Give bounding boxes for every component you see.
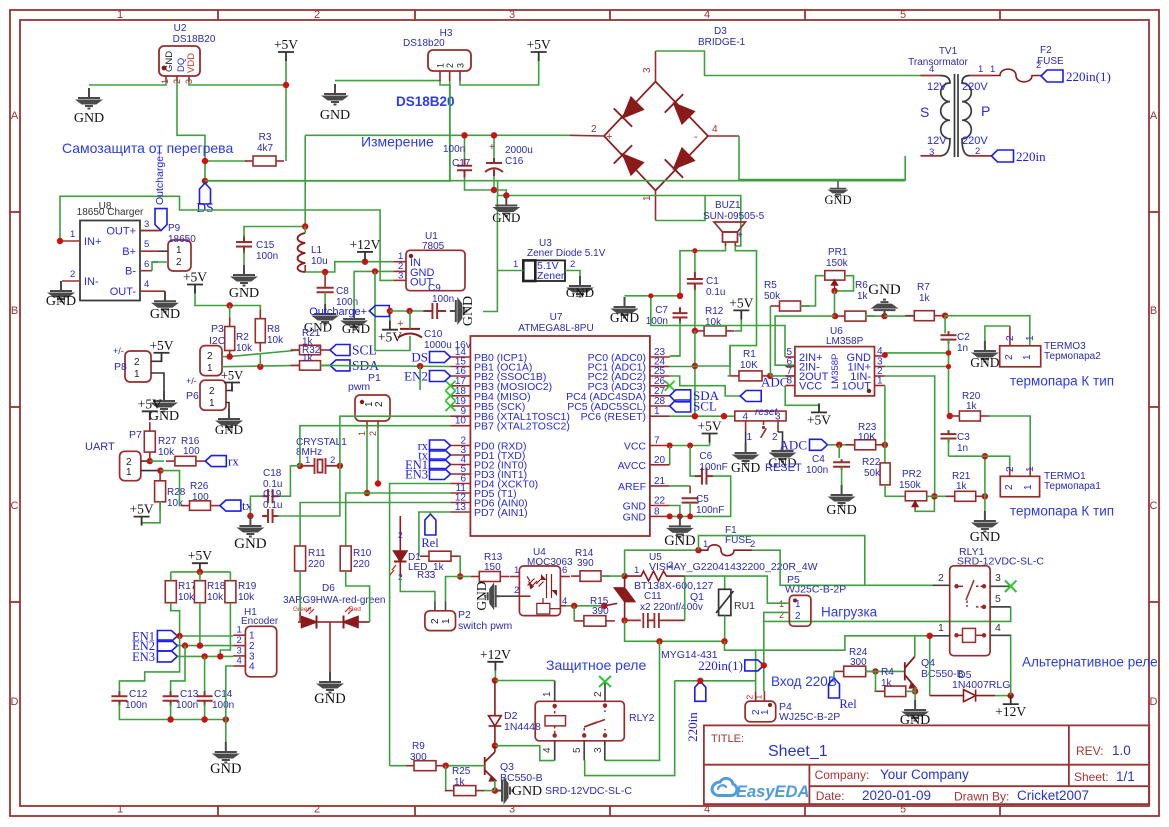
ground	[233, 265, 255, 286]
junction	[227, 353, 233, 359]
wire	[226, 666, 233, 742]
junction	[297, 463, 303, 469]
port 220in vertical	[695, 681, 706, 701]
svg-text:UART: UART	[85, 441, 115, 453]
wire	[752, 550, 932, 585]
wire	[625, 620, 725, 641]
wire	[694, 251, 696, 273]
wire	[670, 321, 680, 356]
svg-text:2: 2	[1004, 354, 1015, 360]
svg-text:TV1: TV1	[939, 46, 958, 57]
connector P7 UART	[120, 451, 141, 480]
svg-text:0.1u: 0.1u	[263, 500, 282, 511]
capacitor C1	[687, 272, 703, 291]
svg-text:3: 3	[509, 9, 515, 21]
svg-text:1: 1	[877, 376, 883, 387]
svg-text:GND: GND	[210, 761, 241, 777]
wire	[985, 326, 1010, 341]
wire	[885, 485, 905, 496]
svg-text:GND: GND	[826, 503, 856, 518]
svg-text:220: 220	[353, 559, 370, 570]
potentiometer PR1	[825, 271, 845, 281]
ground	[324, 84, 346, 105]
svg-text:2: 2	[134, 357, 140, 368]
svg-text:+5V: +5V	[698, 419, 722, 434]
connector TERMO3	[1000, 346, 1041, 367]
port EN3	[157, 651, 177, 662]
capacitor C15	[236, 235, 252, 254]
junction	[201, 653, 207, 659]
wire	[885, 376, 935, 496]
svg-text:2: 2	[398, 530, 403, 540]
wire	[259, 355, 261, 367]
svg-text:Нагрузка: Нагрузка	[821, 605, 878, 620]
wire	[694, 331, 696, 416]
wire	[354, 271, 394, 309]
wire	[833, 671, 835, 678]
svg-text:10k: 10k	[207, 592, 224, 603]
ground	[158, 290, 165, 292]
svg-text:DS18B20: DS18B20	[173, 34, 216, 45]
no-connect marks	[446, 381, 456, 391]
svg-text:A: A	[11, 110, 19, 122]
wire	[835, 276, 854, 291]
capacitor C17	[457, 159, 472, 178]
wire	[484, 790, 495, 792]
svg-text:10k: 10k	[178, 592, 195, 603]
svg-text:2: 2	[514, 585, 519, 596]
wire	[199, 571, 201, 573]
connector P5	[789, 595, 811, 626]
resistor R14	[571, 571, 610, 582]
wire	[995, 695, 1011, 697]
svg-text:6: 6	[144, 259, 149, 270]
svg-text:1: 1	[134, 369, 140, 380]
port DS at PB0	[430, 352, 451, 363]
junction	[417, 363, 423, 369]
regulator U1 7805	[406, 250, 465, 290]
wire	[300, 426, 451, 466]
svg-text:+5V: +5V	[527, 37, 551, 52]
svg-text:U2: U2	[174, 23, 187, 34]
svg-text:220: 220	[308, 559, 325, 570]
svg-text:R27: R27	[158, 436, 177, 447]
ground	[239, 516, 261, 537]
wire	[335, 80, 440, 82]
junction	[872, 668, 878, 674]
junction	[621, 573, 627, 579]
svg-text:EN2: EN2	[404, 369, 428, 384]
wire	[377, 428, 379, 484]
svg-text:1: 1	[754, 695, 764, 700]
wire	[459, 556, 462, 576]
resistor R12	[696, 326, 734, 336]
wire	[560, 576, 570, 578]
svg-text:10u: 10u	[311, 256, 328, 267]
svg-text:C11: C11	[644, 591, 662, 602]
svg-text:C3: C3	[957, 432, 970, 443]
svg-text:4: 4	[704, 9, 710, 21]
ground	[218, 409, 240, 430]
svg-text:2000u: 2000u	[505, 145, 533, 156]
svg-text:Вход 220В: Вход 220В	[771, 674, 837, 689]
svg-text:100n: 100n	[432, 294, 454, 305]
svg-text:2: 2	[570, 259, 575, 270]
svg-text:Альтернативное реле: Альтернативное реле	[1022, 655, 1158, 670]
junction	[302, 223, 308, 229]
junction	[927, 633, 933, 639]
component U8 18650 Charger	[80, 221, 140, 301]
svg-text:R12: R12	[705, 306, 724, 317]
junction	[692, 363, 698, 369]
wire	[494, 671, 496, 681]
svg-text:GND: GND	[342, 321, 370, 336]
svg-text:1: 1	[249, 631, 255, 642]
wire	[205, 81, 450, 181]
connector P1 pwm	[355, 395, 390, 421]
wire	[689, 503, 691, 517]
svg-text:L1: L1	[311, 245, 323, 256]
svg-text:1: 1	[117, 9, 123, 21]
svg-text:R6: R6	[855, 280, 868, 291]
inductor L1	[298, 233, 306, 272]
resistor R26	[181, 501, 220, 511]
svg-text:1: 1	[978, 64, 983, 75]
svg-text:SCL: SCL	[693, 399, 717, 414]
junction	[982, 453, 988, 459]
svg-text:150k: 150k	[826, 258, 849, 269]
svg-text:100nF: 100nF	[699, 462, 727, 473]
power +12V	[357, 252, 373, 261]
svg-text:+: +	[606, 131, 612, 143]
junction	[492, 677, 498, 683]
junction	[832, 313, 838, 319]
svg-text:-: -	[694, 131, 698, 143]
svg-text:+12V: +12V	[995, 704, 1026, 719]
wire	[89, 81, 166, 85]
svg-text:GND: GND	[74, 111, 104, 126]
svg-text:2: 2	[938, 572, 944, 584]
resistor R2	[225, 318, 235, 360]
wire	[690, 476, 731, 516]
wire	[493, 172, 495, 190]
svg-text:1: 1	[305, 455, 310, 466]
svg-text:1: 1	[436, 63, 446, 68]
svg-text:R22: R22	[862, 457, 881, 468]
wire	[730, 246, 757, 376]
wire	[690, 447, 696, 477]
svg-text:C: C	[1150, 500, 1158, 512]
svg-text:5: 5	[900, 9, 906, 21]
svg-text:Zener Diode 5.1V: Zener Diode 5.1V	[527, 248, 606, 259]
svg-text:GND: GND	[970, 530, 1000, 545]
capacitor C14	[197, 691, 213, 705]
encoder H1	[245, 626, 276, 677]
wire	[222, 356, 230, 358]
wire	[651, 296, 785, 357]
capacitor C2	[941, 331, 957, 343]
port SDA	[330, 360, 350, 371]
svg-text:10k: 10k	[236, 343, 253, 354]
svg-text:FUSE: FUSE	[725, 535, 752, 546]
resistor R31	[291, 345, 330, 355]
ground rotated	[450, 300, 467, 322]
svg-text:R4: R4	[881, 667, 894, 678]
svg-text:2: 2	[176, 257, 182, 268]
wire	[914, 636, 916, 657]
junction	[202, 158, 208, 164]
svg-text:4: 4	[742, 412, 748, 423]
wire	[915, 496, 934, 511]
svg-text:1/1: 1/1	[1116, 769, 1135, 784]
svg-text:10K: 10K	[740, 360, 758, 371]
svg-text:220in: 220in	[685, 712, 700, 742]
transistor Q3	[485, 752, 496, 781]
svg-text:5: 5	[144, 239, 149, 250]
wire	[670, 445, 710, 447]
junction	[667, 443, 673, 449]
svg-text:220V: 220V	[962, 135, 988, 147]
junction	[697, 678, 703, 684]
junction	[387, 308, 393, 314]
svg-text:+12V: +12V	[480, 647, 511, 662]
svg-text:C17: C17	[452, 158, 471, 169]
svg-text:2: 2	[795, 611, 801, 622]
svg-text:22: 22	[654, 496, 666, 507]
resistor R18	[194, 581, 205, 603]
svg-text:BUZ1: BUZ1	[715, 200, 741, 211]
svg-text:10k: 10k	[158, 447, 175, 458]
ground	[745, 432, 747, 443]
junction	[571, 603, 577, 609]
svg-text:LM358P: LM358P	[830, 354, 841, 389]
wire	[929, 636, 931, 696]
svg-text:0.1u: 0.1u	[706, 287, 725, 298]
capacitor C12	[111, 691, 127, 705]
svg-text:4: 4	[704, 804, 710, 816]
svg-text:390: 390	[577, 558, 594, 569]
wire	[495, 680, 555, 682]
ground	[50, 281, 72, 302]
svg-text:SUN-09505-5: SUN-09505-5	[703, 211, 765, 222]
svg-text:+5V: +5V	[221, 369, 243, 383]
wire	[904, 156, 906, 181]
wire	[244, 227, 305, 238]
transformer TV1	[940, 74, 971, 157]
wire	[927, 495, 955, 497]
svg-text:1N4448: 1N4448	[504, 721, 541, 733]
svg-text:2: 2	[593, 691, 604, 697]
capacitor C19	[262, 509, 279, 523]
svg-text:Transormator: Transormator	[908, 57, 968, 68]
wire	[865, 670, 905, 672]
svg-text:C10: C10	[424, 329, 443, 340]
ground	[343, 309, 365, 330]
svg-text:3: 3	[398, 271, 403, 282]
svg-text:C19: C19	[263, 489, 282, 500]
transistor Q4	[905, 657, 916, 688]
svg-text:R28: R28	[167, 487, 186, 498]
svg-text:GND: GND	[215, 422, 243, 437]
svg-text:R9: R9	[412, 741, 425, 752]
power +5V	[154, 353, 170, 362]
wire	[884, 386, 886, 463]
svg-text:P: P	[981, 103, 990, 119]
junction	[767, 373, 773, 379]
junction	[912, 688, 918, 694]
svg-text:2: 2	[368, 431, 378, 436]
wire	[601, 575, 625, 577]
wire	[709, 434, 711, 446]
port EN2 at PB2	[430, 371, 451, 382]
svg-text:1: 1	[209, 398, 215, 409]
svg-text:C12: C12	[129, 689, 148, 700]
junction	[362, 259, 368, 265]
wire	[277, 466, 340, 516]
svg-text:C4: C4	[812, 454, 825, 465]
svg-text:GND: GND	[164, 51, 175, 72]
svg-text:390: 390	[592, 606, 609, 617]
junction	[942, 313, 948, 319]
wire	[419, 512, 451, 556]
svg-text:P7: P7	[129, 429, 142, 441]
svg-text:6: 6	[562, 565, 567, 576]
connector P6	[200, 380, 226, 410]
svg-text:10: 10	[455, 416, 467, 427]
power +5V	[702, 434, 718, 443]
resistor R22 vertical	[880, 463, 890, 485]
junction	[692, 248, 697, 253]
svg-text:C2: C2	[957, 332, 970, 343]
svg-text:150k: 150k	[899, 480, 922, 491]
resistor R1	[730, 371, 771, 381]
svg-text:10K: 10K	[858, 432, 876, 443]
svg-text:C16: C16	[505, 156, 524, 167]
resistor R10	[340, 546, 351, 571]
svg-text:Outcharge+: Outcharge+	[309, 306, 367, 318]
svg-text:GND: GND	[610, 310, 639, 325]
svg-text:A: A	[1150, 110, 1158, 122]
wire	[605, 641, 660, 760]
svg-text:100n: 100n	[125, 700, 147, 711]
svg-text:1: 1	[990, 64, 995, 75]
svg-text:SCL: SCL	[352, 343, 377, 358]
svg-text:Drawn By:: Drawn By:	[954, 790, 1009, 804]
svg-text:2: 2	[1005, 466, 1016, 472]
svg-text:2: 2	[314, 804, 320, 816]
wire	[828, 444, 855, 446]
wire	[205, 160, 247, 162]
junction	[157, 467, 163, 473]
port EN1	[157, 631, 177, 642]
port rx at PD0	[430, 440, 451, 451]
svg-text:2: 2	[430, 618, 441, 624]
wire	[841, 467, 843, 485]
wire	[585, 681, 675, 776]
wire	[150, 460, 164, 462]
port Rel flag	[829, 678, 840, 698]
svg-text:C15: C15	[256, 240, 275, 251]
svg-text:1: 1	[1022, 354, 1033, 360]
wire	[483, 196, 497, 312]
svg-text:50k: 50k	[764, 291, 781, 302]
svg-text:4: 4	[249, 662, 255, 673]
wire	[465, 176, 507, 196]
svg-text:1: 1	[1023, 484, 1034, 490]
svg-text:pwm: pwm	[348, 381, 370, 393]
svg-text:220in: 220in	[1016, 149, 1046, 164]
buzzer BUZ1	[714, 222, 746, 246]
svg-text:1: 1	[1025, 335, 1036, 341]
resistor R19	[225, 581, 236, 603]
svg-text:4: 4	[144, 279, 149, 290]
wire	[346, 571, 370, 622]
svg-text:1: 1	[207, 363, 213, 374]
svg-text:1k: 1k	[966, 401, 978, 412]
svg-text:+5V: +5V	[729, 295, 753, 310]
svg-text:4k7: 4k7	[257, 143, 274, 154]
junction	[176, 633, 182, 639]
ground	[569, 276, 591, 297]
svg-text:Date:: Date:	[816, 789, 845, 803]
wire	[220, 603, 230, 657]
port EN2	[157, 640, 177, 651]
junction	[372, 268, 378, 274]
svg-text:C14: C14	[214, 689, 233, 700]
svg-text:2: 2	[975, 146, 980, 157]
svg-text:C7: C7	[655, 305, 668, 316]
svg-text:R18: R18	[207, 581, 226, 592]
svg-text:C5: C5	[696, 494, 709, 505]
svg-text:3: 3	[929, 147, 934, 158]
svg-text:Самозащита от перегрева: Самозащита от перегрева	[62, 140, 233, 156]
svg-text:1: 1	[70, 229, 75, 240]
svg-text:GND: GND	[664, 533, 695, 549]
capacitor C10 polarized	[398, 329, 422, 338]
junction	[147, 458, 153, 464]
power +5V	[811, 403, 827, 412]
ground	[904, 700, 926, 721]
opamp U6 LM358P	[795, 347, 875, 396]
svg-text:WJ25C-B-2P: WJ25C-B-2P	[779, 711, 840, 723]
svg-text:DS: DS	[411, 350, 428, 365]
svg-text:2: 2	[750, 539, 755, 550]
wire	[684, 576, 686, 620]
resistor R32	[291, 361, 330, 371]
connector P3	[200, 346, 222, 376]
power +5V	[134, 517, 150, 526]
wire	[243, 251, 245, 265]
power +5V inverted	[389, 311, 391, 322]
wire	[685, 576, 725, 589]
svg-text:1: 1	[703, 539, 708, 550]
svg-text:C13: C13	[180, 689, 199, 700]
svg-text:Rel: Rel	[421, 536, 439, 550]
svg-text:TITLE:: TITLE:	[711, 733, 744, 745]
wire	[694, 289, 696, 331]
wire	[708, 135, 739, 137]
svg-text:1N4007RLG: 1N4007RLG	[952, 679, 1010, 691]
svg-text:2: 2	[207, 351, 213, 362]
svg-text:B-: B-	[125, 266, 136, 278]
junction	[761, 662, 767, 668]
svg-text:100n: 100n	[176, 700, 198, 711]
svg-text:GND: GND	[492, 210, 520, 225]
svg-text:1: 1	[126, 467, 132, 478]
capacitor C4	[838, 445, 840, 458]
svg-text:3: 3	[642, 67, 653, 73]
ground	[614, 297, 636, 318]
